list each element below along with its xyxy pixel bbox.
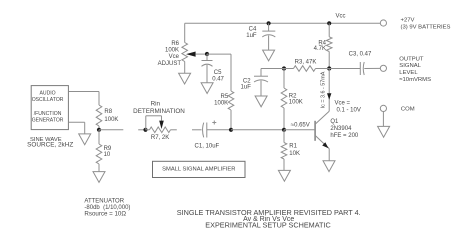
label R2 bbox=[289, 93, 303, 105]
transistor Q1 base bar bbox=[314, 121, 316, 141]
junction dot R7 left bbox=[143, 128, 147, 132]
label attenuator bbox=[84, 199, 130, 218]
label R6 bbox=[158, 41, 182, 67]
svg-text:Rin: Rin bbox=[151, 100, 161, 107]
svg-text:1uF: 1uF bbox=[241, 84, 252, 90]
svg-text:R6: R6 bbox=[171, 41, 179, 47]
svg-text:SIGNAL: SIGNAL bbox=[399, 63, 421, 69]
wire box to R8 bbox=[68, 92, 99, 106]
svg-text:10K: 10K bbox=[289, 151, 300, 157]
terminal +27V bbox=[380, 20, 386, 26]
wiper arrow R6 bbox=[186, 52, 207, 57]
wire rail R5node to R2node bbox=[231, 129, 284, 131]
label C4 bbox=[246, 27, 257, 39]
ground below box stub bbox=[79, 134, 91, 145]
wire R1 top lead bbox=[283, 130, 285, 143]
capacitor C5 bbox=[202, 61, 213, 67]
svg-text:100K: 100K bbox=[165, 48, 179, 54]
svg-text:SOURCE, 2kHZ: SOURCE, 2kHZ bbox=[27, 141, 73, 148]
label R1 bbox=[289, 144, 300, 157]
wire R7 right lead bbox=[171, 129, 177, 131]
label output signal level bbox=[399, 56, 431, 83]
resistor R4 bbox=[326, 37, 332, 52]
capacitor C4 bbox=[262, 31, 275, 37]
wire emitter lead bbox=[328, 149, 330, 161]
svg-text:R2: R2 bbox=[289, 93, 297, 99]
resistor R3 bbox=[294, 66, 316, 72]
svg-text:C4: C4 bbox=[249, 27, 257, 33]
junction dot wiper-C5-R5 bbox=[205, 52, 209, 56]
transistor Q1 emitter bbox=[315, 135, 329, 148]
label R9 bbox=[104, 146, 112, 158]
ground below R1 bbox=[278, 170, 290, 181]
wire R3 right lead bbox=[316, 68, 330, 70]
svg-text:2N3904: 2N3904 bbox=[330, 126, 352, 132]
svg-text:SMALL SIGNAL AMPLIFIER: SMALL SIGNAL AMPLIFIER bbox=[162, 167, 235, 173]
svg-text:100K: 100K bbox=[104, 117, 118, 123]
label C1 bbox=[195, 143, 220, 149]
small signal amplifier box bbox=[153, 161, 246, 177]
wire R2 bottom lead bbox=[283, 108, 285, 130]
junction dot R3-collector bbox=[327, 66, 331, 70]
wire rail to C1 bbox=[192, 129, 202, 131]
transistor Q1 collector bbox=[315, 69, 329, 125]
wire R4 top lead bbox=[328, 23, 330, 37]
ground below R6 bbox=[179, 73, 191, 84]
svg-text:EXPERIMENTAL SETUP SCHEMATIC: EXPERIMENTAL SETUP SCHEMATIC bbox=[205, 221, 330, 230]
svg-text:C3, 0.47: C3, 0.47 bbox=[349, 51, 372, 57]
svg-text:AUDIO: AUDIO bbox=[40, 91, 56, 97]
wire C2 top lead bbox=[260, 69, 262, 77]
svg-text:Vcc: Vcc bbox=[335, 13, 345, 19]
wire base rail seg2 bbox=[138, 129, 145, 131]
wire R1 bottom lead bbox=[283, 159, 285, 170]
svg-text:Vce =: Vce = bbox=[335, 101, 351, 107]
label C3 bbox=[349, 51, 372, 57]
wire C1 to R5 node bbox=[207, 129, 231, 131]
wire C2 to R3 node bbox=[261, 68, 284, 70]
svg-text:GENERATOR: GENERATOR bbox=[32, 118, 64, 124]
label base voltage bbox=[291, 123, 310, 129]
label R5 bbox=[214, 94, 229, 107]
polarity plus C1 bbox=[212, 121, 216, 125]
svg-text:R3, 47K: R3, 47K bbox=[295, 59, 317, 65]
svg-text:Rsource = 10Ω: Rsource = 10Ω bbox=[84, 211, 126, 218]
wire R4 bottom lead bbox=[328, 52, 330, 69]
title line 2 bbox=[243, 216, 294, 223]
svg-text:C5: C5 bbox=[214, 70, 222, 76]
svg-text:hFE = 200: hFE = 200 bbox=[330, 133, 359, 139]
label R7 bbox=[151, 135, 169, 141]
label R4 bbox=[314, 40, 327, 52]
svg-text:ADJUST: ADJUST bbox=[158, 61, 182, 67]
node Vcc label bbox=[335, 13, 345, 19]
junction dot R2-R1-base bbox=[282, 128, 286, 132]
junction dot R8-R9 bbox=[97, 128, 101, 132]
svg-text:DETERMINATION: DETERMINATION bbox=[133, 108, 185, 115]
svg-text:/FUNCTION: /FUNCTION bbox=[34, 111, 62, 117]
ground below C5 bbox=[201, 83, 213, 94]
resistor R1 bbox=[281, 143, 287, 160]
wire rail to base bbox=[284, 129, 315, 131]
wire wiper to R5 branch bbox=[207, 53, 231, 55]
label C2 bbox=[241, 78, 252, 90]
wire C3 to output terminal bbox=[364, 67, 380, 69]
resistor R2 bbox=[281, 88, 287, 108]
svg-text:R8: R8 bbox=[104, 109, 112, 115]
wire R8 bottom lead bbox=[98, 126, 100, 130]
svg-text:ATTENUATOR: ATTENUATOR bbox=[84, 199, 124, 205]
title line 1 bbox=[177, 208, 361, 217]
wire box ground stub bbox=[68, 122, 84, 134]
title line 3 bbox=[205, 221, 330, 230]
label audio oscillator bbox=[32, 91, 64, 124]
svg-text:Ic = 3.6 - 57mA: Ic = 3.6 - 57mA bbox=[321, 71, 327, 108]
resistor R8 bbox=[96, 105, 102, 126]
wire C4 top lead bbox=[268, 23, 270, 31]
svg-text:100K: 100K bbox=[214, 101, 228, 107]
wire R9 top lead bbox=[98, 130, 100, 144]
label R3 bbox=[295, 59, 317, 65]
label sine wave source bbox=[27, 137, 73, 148]
ground below emitter bbox=[323, 161, 335, 172]
label Rin determination bbox=[133, 100, 185, 115]
junction dot R4-Vcc bbox=[327, 21, 331, 25]
audio oscillator box bbox=[31, 86, 68, 130]
svg-text:R7, 2K: R7, 2K bbox=[151, 135, 169, 141]
resistor R9 bbox=[96, 144, 102, 164]
label Q1 bbox=[330, 119, 359, 139]
wire R5 top lead bbox=[230, 54, 232, 91]
wire R5 bottom lead bbox=[230, 110, 232, 130]
svg-text:Q1: Q1 bbox=[330, 119, 339, 125]
svg-text:4.7K: 4.7K bbox=[314, 46, 326, 52]
wire base rail seg1 bbox=[99, 129, 123, 131]
ground below COM bbox=[378, 126, 390, 137]
svg-text:1uF: 1uF bbox=[246, 33, 257, 39]
wire R2 top lead bbox=[283, 69, 285, 89]
svg-text:+27V: +27V bbox=[401, 17, 415, 23]
wire Vcc top rail bbox=[185, 22, 381, 24]
resistor R5 bbox=[228, 91, 234, 110]
svg-text:100K: 100K bbox=[289, 100, 303, 106]
wire R3 left lead bbox=[284, 68, 294, 70]
svg-text:OUTPUT: OUTPUT bbox=[399, 56, 424, 62]
resistor R6 bbox=[182, 43, 188, 62]
label small signal amplifier bbox=[162, 167, 235, 173]
junction dot R3-R2 bbox=[282, 66, 286, 70]
capacitor C1 bbox=[203, 123, 207, 138]
label R8 bbox=[104, 109, 118, 123]
svg-text:COM: COM bbox=[401, 106, 415, 112]
label Ic bbox=[321, 71, 327, 108]
svg-text:C1, 10uF: C1, 10uF bbox=[195, 143, 220, 149]
junction dot C4-Vcc bbox=[267, 21, 271, 25]
label Vce range bbox=[335, 101, 361, 114]
capacitor C3 bbox=[360, 62, 364, 75]
wire R9 bottom lead bbox=[98, 164, 100, 172]
svg-text:OSCILLATOR: OSCILLATOR bbox=[32, 97, 64, 103]
label C5 bbox=[212, 70, 224, 82]
svg-text:≈10mVRMS: ≈10mVRMS bbox=[399, 77, 431, 83]
collector current arrow bbox=[327, 93, 331, 100]
wire COM ground lead bbox=[382, 112, 384, 127]
wire C2 bottom lead bbox=[260, 81, 262, 96]
label +27V batteries bbox=[401, 17, 451, 30]
wire C5 bottom lead bbox=[206, 65, 208, 83]
ground below R9 bbox=[93, 172, 105, 183]
svg-text:(3) 9V BATTERIES: (3) 9V BATTERIES bbox=[401, 25, 451, 31]
label COM bbox=[401, 106, 415, 112]
terminal OUTPUT bbox=[380, 65, 386, 71]
junction dot C1-R5 bbox=[229, 128, 233, 132]
terminal COM bbox=[380, 105, 386, 111]
wire C4 bottom lead bbox=[268, 36, 270, 50]
svg-text:≈0.65V: ≈0.65V bbox=[291, 123, 310, 129]
svg-text:0.1 - 10V: 0.1 - 10V bbox=[337, 108, 361, 114]
svg-text:10: 10 bbox=[104, 152, 111, 158]
ground below C4 bbox=[263, 50, 275, 61]
wire collector node to C3 bbox=[329, 68, 360, 70]
wire R6 top lead bbox=[184, 23, 186, 42]
ground below C2 bbox=[255, 96, 267, 107]
resistor R7 bbox=[150, 127, 171, 133]
svg-text:Vce: Vce bbox=[169, 54, 180, 60]
svg-text:0.47: 0.47 bbox=[212, 76, 224, 82]
capacitor C2 bbox=[254, 76, 268, 82]
wire R7 left lead bbox=[146, 129, 150, 131]
wire R6 bottom lead bbox=[184, 62, 186, 74]
svg-text:R1: R1 bbox=[289, 144, 297, 150]
wire C5 top lead bbox=[206, 54, 208, 60]
svg-text:C2: C2 bbox=[243, 78, 251, 84]
svg-text:LEVEL: LEVEL bbox=[399, 70, 418, 76]
svg-text:R5: R5 bbox=[221, 94, 229, 100]
wiper bracket R7 bbox=[146, 116, 164, 130]
